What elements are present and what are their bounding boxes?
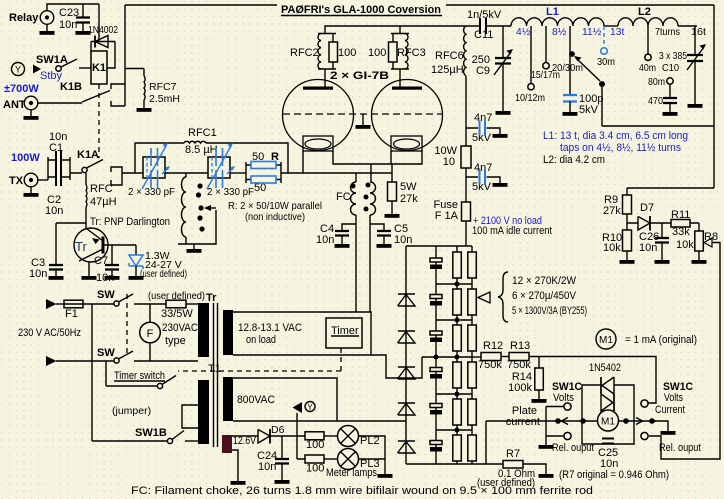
svg-text:SW1A: SW1A — [36, 54, 68, 66]
wire — [230, 172, 246, 174]
svg-text:R: 2 × 50/10W parallel: R: 2 × 50/10W parallel — [228, 201, 322, 212]
svg-text:K1A: K1A — [77, 149, 99, 161]
svg-text:100k: 100k — [508, 382, 532, 394]
svg-text:Meter lamps: Meter lamps — [326, 467, 377, 479]
svg-text:100W: 100W — [11, 152, 40, 164]
svg-text:27k: 27k — [400, 193, 418, 205]
variable capacitor C10 — [694, 26, 696, 55]
svg-text:10k: 10k — [676, 239, 694, 251]
svg-text:4n7: 4n7 — [474, 162, 492, 174]
ground under Relay — [46, 24, 48, 27]
svg-text:Current: Current — [655, 404, 685, 416]
transformer core — [214, 303, 218, 447]
svg-text:16t: 16t — [691, 27, 706, 38]
capacitor C3 — [56, 222, 86, 224]
svg-text:C10: C10 — [662, 63, 679, 74]
svg-text:11½: 11½ — [582, 27, 602, 38]
tap 10/12m — [530, 26, 532, 84]
svg-text:Volts: Volts — [553, 392, 574, 404]
svg-text:12.8-13.1 VAC: 12.8-13.1 VAC — [238, 322, 302, 334]
fan motor F — [149, 304, 151, 322]
choke RFC7 — [125, 69, 144, 77]
svg-text:T1: T1 — [208, 363, 221, 375]
resistor R9 — [626, 188, 628, 195]
rectifier diode column — [405, 246, 407, 464]
cathode V2 — [391, 136, 422, 151]
wire emitter to zener — [104, 245, 136, 255]
svg-text:K1: K1 — [92, 62, 106, 74]
wire cathode connections — [302, 151, 304, 173]
svg-text:D7: D7 — [640, 202, 654, 214]
svg-text:L1: L1 — [546, 6, 559, 18]
svg-text:470: 470 — [648, 96, 663, 107]
svg-text:RFC1: RFC1 — [188, 127, 217, 139]
bias wiper arrow — [210, 207, 216, 209]
tap 40m — [647, 26, 649, 54]
relay coil K1 — [91, 51, 107, 84]
ground grid — [362, 114, 364, 121]
filter capacitor column 6x270u — [435, 246, 437, 464]
svg-text:RFC7: RFC7 — [149, 81, 177, 93]
svg-text:SW: SW — [97, 347, 115, 359]
stage junction wires — [422, 284, 472, 430]
mains input arrows — [46, 299, 57, 309]
svg-text:Tr: PNP Darlington: Tr: PNP Darlington — [90, 216, 170, 228]
resistor R10 — [626, 223, 628, 230]
svg-text:R11: R11 — [671, 209, 690, 221]
lamp PL3 — [324, 458, 338, 460]
svg-text:L2: dia 4.2 cm: L2: dia 4.2 cm — [543, 154, 605, 166]
svg-text:SW1B: SW1B — [135, 427, 167, 439]
svg-text:5kV: 5kV — [472, 132, 492, 144]
svg-text:2.5mH: 2.5mH — [149, 93, 180, 105]
svg-text:4½: 4½ — [516, 27, 531, 38]
zener diode 24-27V — [129, 255, 143, 269]
svg-text:FC: FC — [336, 191, 351, 203]
wire PSU bottom rail — [406, 463, 503, 465]
svg-text:10n: 10n — [316, 234, 334, 246]
wire RF sample to R9 — [627, 187, 714, 189]
svg-text:3 x 385: 3 x 385 — [659, 51, 687, 62]
tap 20/30m — [569, 26, 571, 94]
potentiometer R8 — [698, 223, 700, 231]
svg-text:8.5 µH: 8.5 µH — [185, 144, 218, 156]
wire mains bus — [91, 304, 93, 441]
switch gang dashed — [126, 294, 128, 355]
svg-text:D6: D6 — [271, 424, 285, 436]
svg-text:6 × 270µ/450V: 6 × 270µ/450V — [512, 290, 577, 302]
svg-text:50: 50 — [254, 182, 266, 194]
switch SW lower — [56, 360, 114, 362]
bias contacts — [197, 183, 202, 188]
trimmer capacitor 2x330pF (2) — [208, 157, 230, 178]
capacitor C4 — [342, 224, 356, 231]
tap 30m dashed — [603, 26, 605, 47]
transformer secondary 12.6V — [222, 435, 232, 453]
svg-text:Relay: Relay — [9, 12, 39, 24]
svg-text:10k: 10k — [603, 242, 621, 254]
svg-text:Rel. ouput: Rel. ouput — [552, 442, 594, 454]
svg-text:5kV: 5kV — [472, 181, 492, 193]
svg-text:10n: 10n — [96, 272, 114, 284]
svg-text:current: current — [506, 416, 540, 428]
svg-text:750k: 750k — [478, 359, 502, 371]
capacitor C25 — [602, 439, 614, 444]
svg-text:L1: 13 t, dia 3.4 cm, 6.5 cm l: L1: 13 t, dia 3.4 cm, 6.5 cm long — [543, 130, 688, 142]
anode plate right — [392, 87, 422, 90]
svg-text:F1: F1 — [65, 308, 78, 320]
svg-text:40m: 40m — [639, 63, 656, 74]
wire band-switch common to frame — [602, 125, 714, 127]
svg-text:(R7 original = 0.946 Ohm): (R7 original = 0.946 Ohm) — [559, 469, 669, 481]
fuse F 1A — [465, 168, 467, 202]
wire top frame — [125, 4, 714, 6]
svg-text:1n/5kV: 1n/5kV — [467, 9, 502, 21]
capacitor C26 — [661, 223, 663, 238]
box 800VAC — [233, 378, 337, 421]
wire lamps to ground — [359, 436, 386, 470]
bleeder resistor column A — [456, 246, 458, 464]
svg-text:RFC2: RFC2 — [290, 47, 319, 59]
node Y (fan) — [293, 402, 303, 413]
svg-text:RFC6: RFC6 — [435, 50, 464, 62]
svg-text:R12: R12 — [483, 340, 503, 352]
svg-text:1N4002: 1N4002 — [88, 24, 118, 36]
svg-text:5kV: 5kV — [579, 104, 599, 116]
svg-text:30m: 30m — [597, 57, 615, 68]
svg-text:Timer: Timer — [331, 325, 359, 337]
resistor R13 — [501, 356, 509, 358]
wire R9 node — [627, 214, 699, 223]
capacitor C24 — [281, 436, 283, 459]
ground meter right — [652, 421, 668, 427]
svg-text:100: 100 — [368, 47, 386, 59]
wire main cathode line — [281, 172, 392, 174]
resistor 10W 10 — [465, 76, 467, 146]
wire — [165, 172, 208, 174]
tube V2 envelope — [372, 80, 443, 151]
bleeder resistor column B — [471, 246, 473, 464]
svg-text:47µH: 47µH — [90, 196, 117, 208]
capacitor C7 — [111, 245, 113, 265]
svg-text:100: 100 — [338, 47, 356, 59]
svg-text:2 × GI-7B: 2 × GI-7B — [330, 70, 389, 82]
lamp resistors 100 — [297, 436, 305, 459]
svg-text:800VAC: 800VAC — [237, 394, 275, 406]
svg-text:33k: 33k — [672, 226, 690, 238]
svg-text:100: 100 — [306, 439, 324, 451]
wire junction3 to transformer — [371, 355, 422, 378]
svg-text:27k: 27k — [603, 205, 621, 217]
svg-text:Timer switch: Timer switch — [114, 370, 165, 382]
capacitor 100p 5kV — [563, 95, 577, 102]
svg-text:on load: on load — [246, 334, 276, 346]
resistor R7 — [503, 461, 523, 469]
svg-text:8½: 8½ — [552, 27, 567, 38]
svg-text:(jumper): (jumper) — [112, 405, 151, 417]
svg-text:Tr: Tr — [206, 292, 217, 304]
svg-text:SW: SW — [97, 289, 115, 301]
svg-text:Y: Y — [307, 403, 313, 412]
svg-text:(non inductive): (non inductive) — [245, 212, 305, 223]
svg-text:230 V AC/50Hz: 230 V AC/50Hz — [18, 327, 81, 339]
wire FC to heater — [356, 215, 370, 312]
callout arrow — [478, 292, 490, 303]
callout brace — [498, 272, 508, 322]
svg-text:±700W: ±700W — [4, 83, 39, 95]
wire PSU top rail — [406, 245, 472, 247]
band switch wiper — [576, 58, 601, 82]
svg-text:F: F — [147, 328, 154, 340]
svg-text:taps on 4½, 8½, 11½ turns: taps on 4½, 8½, 11½ turns — [560, 142, 681, 154]
lamp PL2 — [324, 435, 338, 437]
svg-text:= 1 mA (original): = 1 mA (original) — [625, 334, 697, 346]
svg-text:L2: L2 — [638, 6, 651, 18]
svg-text:C9: C9 — [476, 65, 490, 77]
capacitor C5 — [370, 224, 384, 231]
svg-text:R8: R8 — [704, 231, 718, 243]
resistor R12 — [472, 356, 481, 358]
meter legend M1 — [596, 329, 616, 349]
svg-text:33/5W: 33/5W — [161, 308, 193, 320]
heater box 12.8-13.1 VAC — [233, 312, 371, 355]
transformer secondary 800V — [223, 377, 233, 421]
svg-text:4n7: 4n7 — [474, 112, 492, 124]
svg-text:FC: Filament choke, 26 turns 1: FC: Filament choke, 26 turns 1.8 mm wire… — [131, 485, 593, 497]
meter box — [582, 385, 634, 444]
cathode V1 — [303, 136, 333, 151]
svg-text:Y: Y — [15, 65, 21, 75]
svg-text:RFC3: RFC3 — [397, 47, 426, 59]
svg-text:10n: 10n — [29, 268, 47, 280]
wire meter line left — [486, 420, 597, 422]
svg-text:Volts: Volts — [664, 392, 683, 404]
svg-text:F 1A: F 1A — [435, 210, 459, 222]
svg-text:125µH: 125µH — [431, 64, 464, 76]
svg-text:10: 10 — [443, 156, 455, 168]
svg-text:Rel. ouput: Rel. ouput — [659, 442, 701, 454]
svg-text:PL2: PL2 — [360, 435, 380, 447]
wire left frame vertical — [124, 5, 126, 106]
svg-text:M1: M1 — [601, 417, 615, 428]
svg-text:750k: 750k — [507, 359, 531, 371]
svg-text:20/30m: 20/30m — [552, 63, 583, 74]
meter M1 — [598, 410, 619, 431]
svg-text:100 mA idle current: 100 mA idle current — [472, 225, 552, 237]
resistor 5W 27k — [388, 182, 397, 201]
choke RFC 47uH — [85, 173, 87, 185]
svg-text:80m: 80m — [648, 77, 665, 88]
svg-text:C11: C11 — [474, 29, 493, 41]
transformer T1 primary — [198, 303, 209, 357]
bias tap switch winding — [185, 173, 187, 177]
svg-text:230VAC: 230VAC — [162, 322, 198, 334]
svg-text:10n: 10n — [258, 461, 276, 473]
svg-text:ANT: ANT — [3, 99, 26, 111]
svg-text:K1B: K1B — [60, 81, 82, 93]
node Y (stby) — [12, 63, 25, 76]
svg-text:Tr: Tr — [75, 239, 87, 254]
svg-text:2 × 330 pF: 2 × 330 pF — [128, 187, 175, 198]
wire anode supply line — [325, 26, 479, 34]
svg-text:(user defined): (user defined) — [140, 268, 187, 280]
tap 80m + capacitor 470 — [667, 78, 673, 84]
transformer secondary 12.8V — [223, 310, 233, 355]
wire plate sense — [485, 421, 487, 464]
svg-text:7turns: 7turns — [655, 27, 680, 38]
svg-text:5 × 1300V/3A (BY255): 5 × 1300V/3A (BY255) — [512, 305, 587, 317]
timer dashed link — [178, 348, 341, 371]
svg-text:R13: R13 — [510, 340, 530, 352]
trimmer capacitor 2x330pF (1) — [143, 157, 165, 178]
svg-text:M1: M1 — [599, 335, 613, 346]
resistor R14 — [538, 357, 540, 369]
svg-text:10n: 10n — [45, 205, 63, 217]
svg-text:100: 100 — [306, 463, 324, 475]
fuse F1 — [56, 303, 64, 305]
svg-text:12.6V: 12.6V — [233, 435, 257, 447]
anode plate left — [303, 87, 333, 90]
relay link dashed — [98, 84, 100, 158]
svg-text:RFC: RFC — [90, 183, 113, 195]
title — [277, 0, 446, 16]
svg-text:13t: 13t — [610, 27, 624, 38]
grid line dashed — [283, 113, 443, 115]
svg-text:type: type — [165, 335, 186, 347]
resistor R11 — [671, 220, 690, 228]
tap 15/17m — [545, 26, 547, 63]
choke RFC1 — [135, 143, 184, 173]
svg-text:10/12m: 10/12m — [515, 93, 545, 104]
svg-text:1N5402: 1N5402 — [589, 362, 621, 374]
svg-text:2 × 330 pF: 2 × 330 pF — [207, 187, 254, 198]
wire 800VAC to rectifier — [233, 420, 406, 422]
svg-text:10n: 10n — [394, 234, 412, 246]
svg-text:10n: 10n — [59, 19, 77, 31]
timer box — [326, 318, 362, 348]
wire meter line right — [619, 420, 657, 422]
svg-text:12 × 270K/2W: 12 × 270K/2W — [512, 275, 577, 287]
svg-text:10n: 10n — [639, 242, 657, 254]
wire right frame vertical — [713, 5, 715, 188]
svg-text:TX: TX — [9, 175, 24, 187]
tube V1 envelope — [283, 80, 354, 151]
wire to meter current — [529, 357, 656, 404]
svg-text:R7: R7 — [506, 448, 520, 460]
svg-text:C7: C7 — [94, 255, 108, 267]
svg-text:PAØFRI's GLA-1000 Coversion: PAØFRI's GLA-1000 Coversion — [281, 4, 441, 16]
svg-text:5W: 5W — [400, 181, 417, 193]
ground bias — [193, 244, 195, 245]
